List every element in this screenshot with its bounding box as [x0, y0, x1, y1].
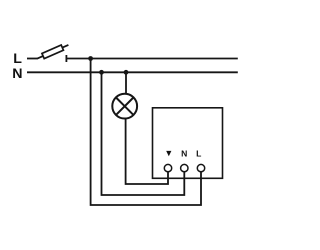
terminal arrow — [164, 164, 171, 171]
switch blade F1 — [37, 45, 68, 59]
wire L junction to terminal L — [91, 59, 201, 206]
terminal L — [197, 164, 204, 171]
junction dot on N (device feed) — [99, 70, 104, 75]
svg-text:N: N — [181, 148, 187, 158]
device box U1 — [153, 108, 223, 179]
junction dot on L — [88, 56, 93, 61]
svg-text:N: N — [12, 66, 22, 82]
lamp E1 — [112, 94, 137, 119]
terminal N — [181, 164, 188, 171]
fuse body F1 — [42, 45, 63, 59]
wire lamp bottom to switched terminal — [126, 118, 168, 184]
wire L lead-in — [27, 58, 38, 60]
junction dot on N (lamp feed) — [124, 70, 129, 75]
svg-text:L: L — [196, 148, 201, 158]
svg-text:L: L — [13, 51, 22, 67]
wire N to lamp top — [125, 72, 127, 94]
wire N main — [27, 71, 238, 73]
pin label arrow (switched output) — [166, 151, 171, 156]
switch fixed contact — [65, 55, 67, 62]
wire L main — [67, 58, 238, 60]
wire N junction to terminal N — [102, 72, 185, 195]
